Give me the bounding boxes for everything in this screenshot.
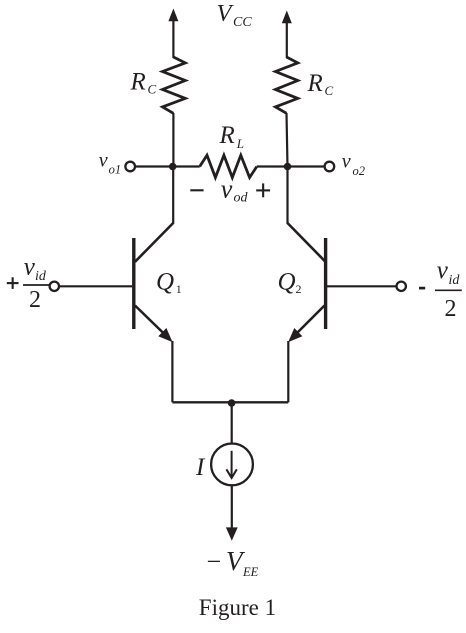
svg-text:v: v [342,150,351,172]
transistor Q2 emitter [291,306,325,340]
node junction left [169,163,177,171]
svg-text:EE: EE [242,565,259,579]
wire [172,167,174,225]
svg-text:o2: o2 [353,164,366,178]
resistor RL [200,155,257,177]
wire [135,165,200,167]
svg-text:id: id [35,269,47,284]
svg-text:v: v [99,150,108,172]
svg-text:Figure 1: Figure 1 [199,595,276,620]
wire [231,485,233,529]
wire [286,22,288,59]
transistor Q1 collector [135,223,173,262]
wire [286,167,288,225]
svg-text:2: 2 [445,296,457,322]
wire [287,113,288,167]
label -VEE [207,546,259,579]
arrow Q1 emitter [158,328,172,342]
svg-text:od: od [234,191,249,206]
wire [172,401,288,403]
label vo2 [342,150,365,178]
resistor RC right [275,57,297,113]
svg-text:R: R [219,122,235,149]
label minus vod [190,189,203,191]
label vo1 [99,150,121,177]
wire [172,113,174,167]
label RC right [307,70,334,98]
resistor RC left [163,57,186,113]
node junction right [284,163,292,171]
arrow Q2 emitter [288,328,302,342]
wire [287,341,289,402]
label +vid/2 left [7,254,50,313]
transistor Q1 base bar [132,238,135,329]
label vod [221,174,249,205]
wire [327,285,397,287]
transistor Q2 base bar [324,238,327,329]
arrow VCC right [282,11,292,24]
transistor Q1 emitter [135,306,170,340]
terminal vo1 [125,162,135,172]
current source arrow [231,451,233,477]
wire [59,285,132,287]
wire [172,20,174,59]
terminal +vid/2 [50,282,59,291]
svg-text:−: − [207,547,222,576]
label Q1 [156,269,182,296]
node junction emitters [228,399,236,407]
svg-text:v: v [24,254,36,281]
label RL [219,122,245,151]
label Q2 [278,269,302,297]
svg-text:Q: Q [156,269,174,296]
terminal -vid/2 [397,282,406,291]
wire [171,341,173,402]
current source I [211,444,253,486]
terminal vo2 [325,162,335,172]
svg-text:2: 2 [296,282,302,296]
svg-text:2: 2 [29,287,41,313]
svg-text:R: R [307,70,323,97]
svg-text:C: C [148,82,157,97]
svg-text:C: C [325,83,334,98]
transistor Q2 collector [288,223,326,262]
svg-text:1: 1 [176,282,182,296]
svg-text:L: L [236,136,244,151]
svg-text:v: v [437,257,449,284]
svg-text:o1: o1 [109,163,122,177]
arrow -VEE [226,527,238,540]
svg-text:v: v [221,174,233,203]
wire [257,165,325,167]
svg-text:id: id [449,273,461,288]
label VCC [217,0,253,30]
arrow VCC left [168,9,178,22]
label -vid/2 right [419,257,462,322]
svg-text:CC: CC [233,15,252,30]
svg-text:Q: Q [278,269,296,296]
label RC left [130,69,157,97]
svg-text:R: R [130,69,146,96]
wire [231,402,233,444]
label plus vod [256,183,270,197]
